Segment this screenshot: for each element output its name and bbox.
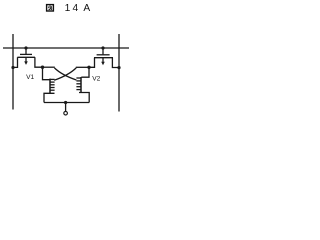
transistor Q3 (left ladder) (50, 79, 55, 94)
left rail wire (12, 34, 14, 110)
transistor Q4 (right ladder) (76, 77, 81, 93)
transistor V1 (13, 48, 43, 67)
top supply rail wire (3, 47, 129, 49)
wire node A to X (43, 66, 55, 68)
svg-text:V2: V2 (92, 75, 100, 82)
cross-coupling diagonal D1 (54, 68, 76, 80)
svg-text:4: 4 (72, 3, 78, 14)
transistor V2 (89, 48, 119, 68)
junction dot left rail (11, 66, 14, 69)
bottom bus wire (44, 102, 89, 104)
right rail wire (118, 34, 120, 112)
output stem wire (65, 103, 67, 112)
node dot V2 drain rail (101, 46, 104, 49)
junction dot right rail (117, 66, 120, 69)
junction dot node A (41, 66, 44, 69)
wire node B to X (76, 66, 89, 68)
svg-text:V1: V1 (26, 74, 34, 81)
svg-text:A: A (83, 3, 90, 14)
cross-coupling diagonal D2 (54, 68, 76, 80)
junction dot node B (87, 66, 90, 69)
figure label 図 box (47, 5, 54, 11)
transistor Q3 gate wire (43, 67, 50, 80)
output terminal (64, 111, 68, 115)
Q3 source wire (44, 93, 55, 102)
node dot V1 drain at rail (24, 46, 27, 49)
junction dot bus tap (64, 101, 67, 104)
transistor Q4 gate wire (81, 67, 89, 77)
figure number text 14A (65, 3, 91, 14)
Q4 source wire (79, 93, 89, 103)
svg-text:1: 1 (65, 3, 71, 14)
